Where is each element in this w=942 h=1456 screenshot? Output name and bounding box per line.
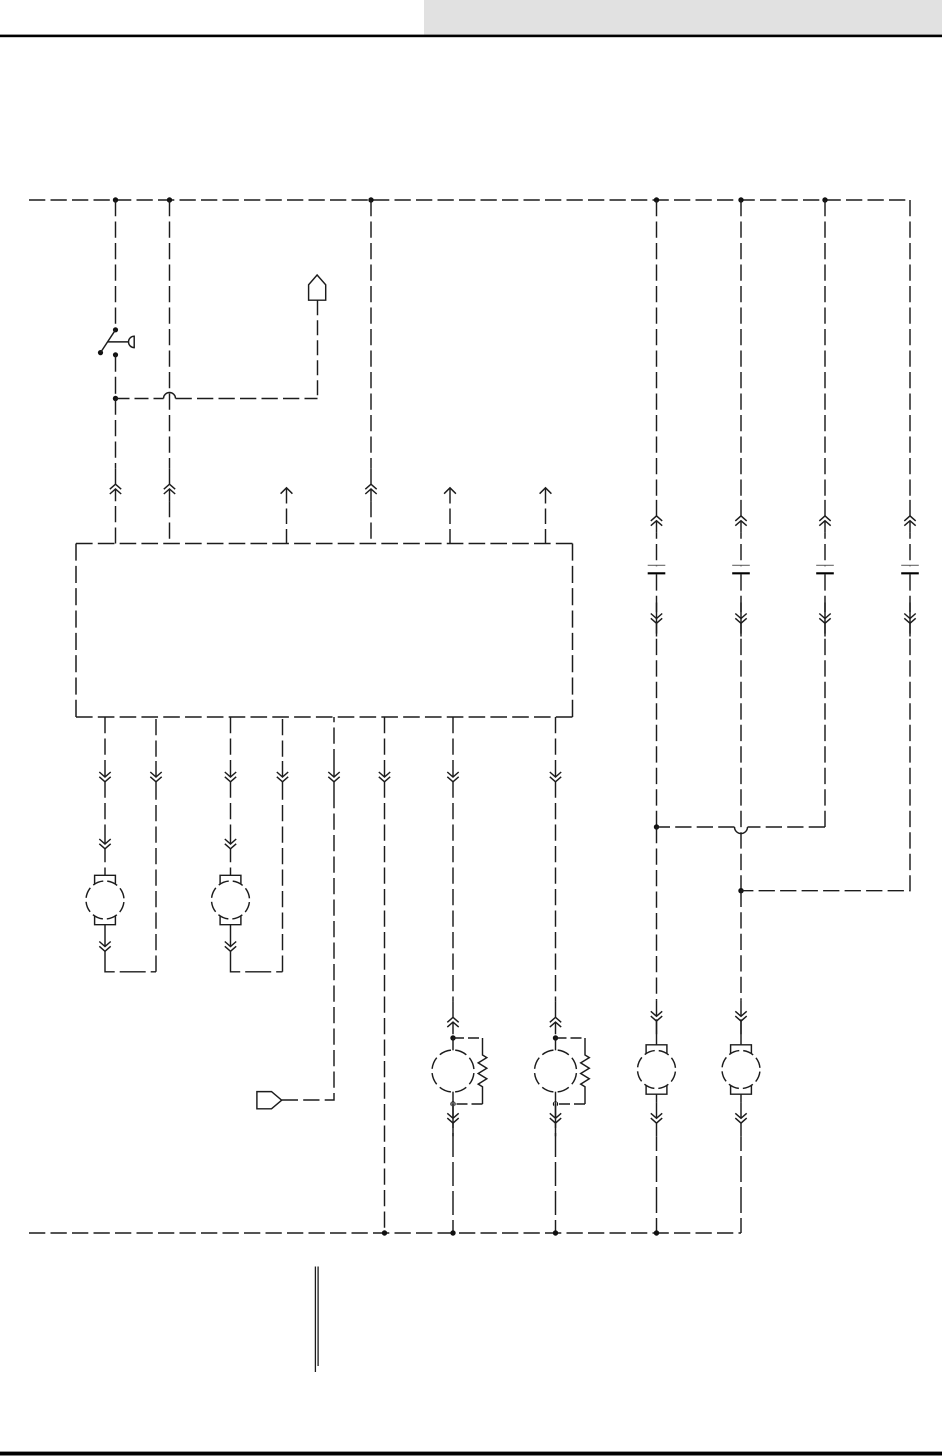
motor M1	[86, 875, 124, 924]
wire: motor M2 return leg	[231, 925, 283, 972]
wire: motor M5 lower	[656, 1094, 658, 1233]
connector C2 (terminal cavity, pointing right)	[257, 1092, 282, 1109]
wire: motor M1 return leg	[105, 925, 156, 972]
wire: input stub arrow A1	[281, 488, 293, 544]
connector pair (double chevron) capacitor 2 upper	[735, 500, 746, 533]
connector pair (double chevron) pin 6 out	[379, 761, 390, 795]
wire: motor M4 to ground bus	[555, 1104, 557, 1233]
capacitor C4	[732, 565, 750, 573]
node: junction dot top bus capacitor column 3	[822, 197, 827, 202]
node: ground bus dot motor M4	[553, 1230, 558, 1235]
connector pair (double chevron) pin 4 out	[277, 761, 288, 795]
control module U1 (dashed outline box)	[76, 544, 573, 718]
connector pair (double chevron) above motor M5	[651, 1000, 662, 1034]
connector pair (double chevron) pin 7 out	[447, 761, 458, 795]
motor M3 (with suppression resistor R1)	[432, 1038, 474, 1104]
node: motor M3 top junction	[450, 1035, 455, 1040]
capacitor C3	[648, 565, 666, 573]
connector pair (double chevron) below motor M3	[447, 1102, 458, 1136]
node: junction dot top bus capacitor column 2	[738, 197, 743, 202]
connector pair (double chevron) below motor M4	[550, 1102, 561, 1136]
wire: motor M3 to ground bus	[452, 1104, 454, 1233]
wire: capacitor column 4 down and cross link to column 2 junction	[741, 574, 910, 890]
wire: motor M2 return to module pin 4	[282, 717, 284, 972]
wire: module output pin 5 to connector C2	[282, 717, 334, 1100]
wire: chevron to motor M5	[656, 1019, 658, 1045]
connector pair pin 3 (double chevron)	[365, 468, 376, 501]
capacitor C6	[901, 565, 919, 573]
wire: motor M6 lower to ground bus corner	[740, 1094, 742, 1233]
connector pair (double chevron) above motor M3	[447, 1001, 458, 1034]
wire: motor M1 return to module pin 2	[155, 717, 157, 972]
connector pair pin 2 (double chevron)	[164, 468, 175, 501]
node: junction dot top bus capacitor column 1	[654, 197, 659, 202]
switch S1	[98, 327, 134, 357]
wire: module output pin 1 to motor M1	[104, 717, 106, 876]
connector pair (double chevron) above motor M1	[99, 828, 110, 862]
motor M6	[722, 1045, 760, 1094]
node: ground bus dot pin 6	[382, 1230, 387, 1235]
wire: capacitor column 2 upper	[740, 200, 742, 566]
connector pair pin 1 (double chevron)	[110, 468, 121, 501]
header rule	[0, 35, 942, 38]
wire: cross link to column 1 junction, hop over column 2	[657, 827, 826, 834]
wire: input stub arrow A2	[444, 488, 456, 544]
resistor R2	[556, 1038, 590, 1104]
node: motor M4 bottom junction	[553, 1101, 558, 1106]
wire: junction down to motor M5	[656, 827, 658, 1011]
wire: column 3 from bus to module	[370, 200, 372, 544]
connector pair (double chevron) capacitor 2 lower	[735, 603, 746, 637]
connector pair (double chevron) pin 2 out	[150, 761, 161, 795]
node: junction dot column 2 / link from capacitor column 4	[738, 888, 743, 893]
page split mark (double rule)	[315, 1267, 318, 1373]
wire: capacitor column 1 lower to junction	[656, 574, 658, 827]
header grey tab	[424, 0, 942, 35]
connector pair (double chevron) below motor M2	[225, 931, 236, 965]
wire: capacitor column 1 upper	[656, 200, 658, 566]
wire: capacitor column 3 down to cross link	[824, 574, 826, 827]
connector pair (double chevron) capacitor 4 lower	[904, 603, 915, 637]
node: junction dot top bus column 2	[167, 197, 172, 202]
wire: capacitor column 4 upper (from bus corner)	[909, 200, 911, 566]
connector pair (double chevron) capacitor 3 upper	[819, 500, 830, 533]
wire: capacitor column 2 lower to junction	[740, 574, 742, 890]
wire: input stub arrow A3	[540, 488, 552, 544]
wire: bus drop to switch	[115, 200, 117, 327]
wire: column 2 from bus to module	[169, 200, 171, 544]
node: motor M3 bottom junction	[450, 1101, 455, 1106]
wire: top supply bus	[29, 199, 910, 201]
motor M5	[638, 1045, 676, 1094]
connector pair (double chevron) pin 5 out	[328, 761, 339, 795]
connector pair (double chevron) capacitor 3 lower	[819, 603, 830, 637]
node: motor M4 top junction	[553, 1035, 558, 1040]
node: junction dot top bus column 3	[368, 197, 373, 202]
connector pair (double chevron) above motor M6	[735, 1000, 746, 1034]
wire: junction down to motor M6	[740, 891, 742, 1011]
node: junction dot top bus at switch column	[113, 197, 118, 202]
wire: capacitor column 3 upper	[824, 200, 826, 566]
connector pair (double chevron) below motor M5	[651, 1102, 662, 1136]
connector pair (double chevron) pin 1 out	[99, 761, 110, 795]
node: junction dot at switch branch	[113, 396, 118, 401]
wire: branch to connector C1, with hop over column 2	[116, 300, 318, 398]
connector pair (double chevron) capacitor 1 lower	[651, 603, 662, 637]
node: junction dot column 1 / link from capacitor column 3	[654, 824, 659, 829]
motor M2	[212, 875, 250, 924]
wire: module output pin 8 to motor M4	[555, 717, 557, 1015]
connector pair (double chevron) above motor M4	[550, 1001, 561, 1034]
connector C1 (terminal cavity, pointing up)	[309, 275, 326, 300]
wire: module output pin 7 to motor M3	[452, 717, 454, 1015]
wire: switch to junction	[115, 355, 117, 399]
wire: chevron to motor M6	[740, 1019, 742, 1045]
motor M4 (with suppression resistor R2)	[535, 1038, 577, 1104]
capacitor C5	[816, 565, 834, 573]
wire: switch column down to module	[115, 399, 117, 544]
wire: module output pin 6 to ground bus	[384, 717, 386, 1233]
node: ground bus dot motor M3	[450, 1230, 455, 1235]
connector pair (double chevron) below motor M1	[99, 931, 110, 965]
connector pair (double chevron) pin 8 out	[550, 761, 561, 795]
wire: module output pin 3 to motor M2	[230, 717, 232, 876]
footer rule	[0, 1452, 942, 1456]
connector pair (double chevron) capacitor 1 upper	[651, 500, 662, 533]
connector pair (double chevron) below motor M6	[735, 1102, 746, 1136]
connector pair (double chevron) above motor M2	[225, 828, 236, 862]
connector pair (double chevron) capacitor 4 upper	[904, 500, 915, 533]
node: ground bus dot motor M5	[654, 1230, 659, 1235]
resistor R1	[453, 1038, 487, 1104]
wire: ground bus	[29, 1232, 741, 1234]
connector pair (double chevron) pin 3 out	[225, 761, 236, 795]
